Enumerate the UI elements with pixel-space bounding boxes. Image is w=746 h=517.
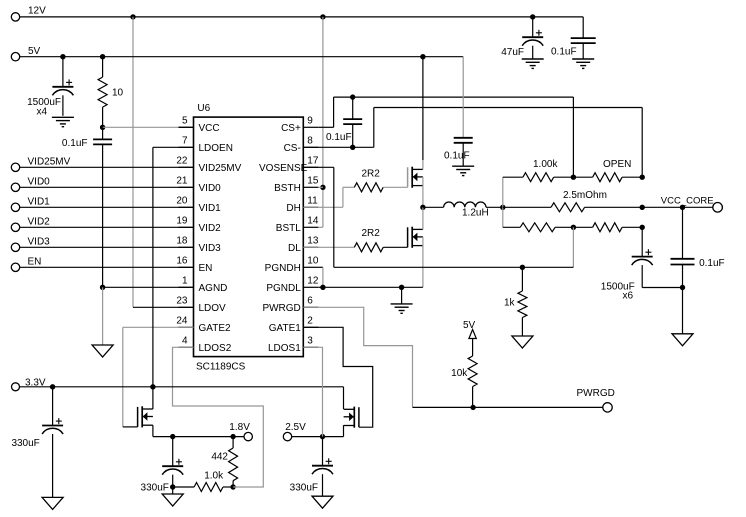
capacitor 330uF (1.8V) [141,437,184,494]
wire VID1 [20,206,194,208]
svg-text:VID25MV: VID25MV [28,157,71,168]
wire EN [20,266,194,268]
svg-text:19: 19 [176,215,188,226]
svg-text:LDOV: LDOV [199,303,227,314]
ground (arrow) 2.5V cap [312,496,333,508]
transistor Q-2.5V (NMOS mirrored) [344,407,359,428]
junction caps common [680,285,685,290]
wire PGNDL [318,286,423,288]
svg-text:11: 11 [307,195,318,206]
svg-text:CS-: CS- [284,143,301,154]
ground (earth) under 0.1uF mid [452,166,474,175]
wire 3.3V to Q2.5 drain [343,387,345,409]
transistor Q-high (NMOS) [408,167,423,188]
junction 3.3V/Q1.8 drain [150,384,155,389]
VID2 input terminal [11,217,50,232]
wire PWRGD line [413,406,603,408]
svg-text:LDOS1: LDOS1 [268,343,301,354]
junction VCC_CORE/0.1uF [680,205,685,210]
wire 3.3V to Q1.8 drain [152,387,154,409]
wire LDOS2 route [173,347,264,487]
transistor Q-1.8V (NMOS) [138,406,153,427]
junction BSTH [320,185,325,190]
junction 12V/LDOV [130,14,135,19]
ground (arrow) VCC_CORE caps [672,334,693,346]
junction R10/0.1uF/VCC [100,125,105,130]
svg-text:1: 1 [182,275,188,286]
resistor 10k [451,356,477,407]
resistor 1.0k [173,471,233,492]
svg-text:VID25MV: VID25MV [199,163,242,174]
ground (earth) under 0.1uF 12V [572,59,594,68]
wire BSTH stub link [318,187,323,227]
svg-text:8: 8 [307,135,313,146]
svg-text:PGNDL: PGNDL [266,283,301,294]
svg-text:OPEN: OPEN [603,159,631,170]
wire PGNDL ground lead [401,287,403,304]
svg-text:PGNDH: PGNDH [265,263,301,274]
junction LDOS1/2.5V [320,434,325,439]
3.3V input terminal [12,378,46,391]
wire sense row1 left [503,176,523,178]
12V input terminal [11,6,46,21]
capacitor 0.1uF (VCC) [62,127,112,287]
wire switch node to Q-low drain [422,207,424,229]
resistor OPEN [593,159,632,182]
5V input terminal [11,46,40,61]
svg-text:17: 17 [307,155,319,166]
svg-text:10k: 10k [451,368,468,379]
junction 12V/47uF [530,14,535,19]
capacitor 0.1uF (12V) [551,17,596,59]
svg-text:GATE1: GATE1 [269,323,301,334]
svg-text:PWRGD: PWRGD [577,388,615,399]
wire row2 left [503,206,551,208]
junction 12V/BSTH [320,14,325,19]
wire 12V to BSTH/BSTL (vertical) [322,17,324,227]
junction 442 top [230,434,235,439]
junction PGNDL/ground [399,285,404,290]
svg-text:2.5mOhm: 2.5mOhm [563,190,607,201]
ground (arrow) 3.3V cap [42,497,63,509]
svg-text:VCC_CORE: VCC_CORE [661,196,714,207]
svg-text:14: 14 [307,215,319,226]
svg-text:0.1uF: 0.1uF [551,47,577,58]
svg-text:PWRGD: PWRGD [262,303,300,314]
wire GATE2 route [123,327,194,427]
svg-text:2.5V: 2.5V [285,422,306,433]
wire PWRGD route [303,307,412,407]
capacitor 0.1uF (VCC_CORE) [671,207,725,333]
svg-text:5V: 5V [28,46,41,57]
wire CS- net [303,108,642,178]
resistor 1k [504,267,527,336]
wire VCC_CORE [642,206,713,208]
wire AGND to ground [102,287,104,345]
wire 5V to 0.1uF (mid) [462,57,464,138]
ground (earth) PGNDL [391,304,413,313]
svg-text:18: 18 [176,235,188,246]
svg-text:VOSENSE: VOSENSE [259,163,308,174]
wire Q-low source to PGNDL [422,237,424,287]
inductor 1.2uH [423,202,503,218]
wire Q1.8 source to 1.8V rail [153,425,244,436]
svg-text:1.2uH: 1.2uH [462,207,489,218]
svg-text:VID0: VID0 [199,183,222,194]
resistor 2R2 (high side) [354,169,383,192]
svg-text:0.1uF: 0.1uF [699,258,725,269]
svg-text:BSTH: BSTH [274,183,301,194]
wire CS+ net [318,97,573,177]
svg-text:24: 24 [176,315,188,326]
svg-text:15: 15 [307,175,319,186]
wire sense left vertical [502,177,504,227]
junction row1 mid [571,175,576,180]
capacitor 47uF [501,17,543,59]
ground (earth) under 47uF [522,59,544,68]
VID3 input terminal [11,237,50,252]
svg-text:EN: EN [28,257,42,268]
svg-text:442: 442 [211,452,228,463]
svg-text:VID1: VID1 [28,197,51,208]
node 5V pullup [463,320,476,356]
EN input terminal [11,257,41,272]
svg-text:5V: 5V [463,320,476,331]
wire row1 mid [554,176,593,178]
svg-text:x6: x6 [622,290,633,301]
wire VID2 [20,226,194,228]
VID0 input terminal [11,177,50,192]
wire VCC feed [103,126,194,128]
wire LDOV [133,306,194,308]
resistor 10 [98,57,123,128]
svg-text:13: 13 [307,235,319,246]
svg-text:BSTL: BSTL [276,223,301,234]
wire LDOEN to 3.3V [153,147,194,386]
wire 2R2 to Q-high gate [383,186,407,188]
resistor 442 [211,437,237,487]
svg-text:23: 23 [176,295,188,306]
wire Q2.5 source to 2.5V rail [292,425,344,436]
svg-text:21: 21 [176,175,188,186]
wire VID3 [20,246,194,248]
transistor Q-low (NMOS) [408,227,423,248]
svg-text:7: 7 [182,135,188,146]
junction 5V/1500uF [60,54,65,59]
junction CS-/0.1uF [350,145,355,150]
capacitor 0.1uF (CS filter) [326,97,362,147]
svg-text:5: 5 [182,115,188,126]
wire VID0 [20,186,194,188]
wire 3.3V rail [20,386,344,388]
junction 330uF 1.8V [170,434,175,439]
svg-text:9: 9 [307,115,313,126]
op-amp U6 SC1189CS controller IC [176,103,318,372]
wire 12V to LDOV (vertical) [132,17,134,307]
wire GATE1 route [303,327,372,427]
resistor 2R2 (low side) [354,228,383,252]
junction 5V/R10 [100,54,105,59]
capacitor 1500uF x4 [27,57,73,118]
junction AGND [100,285,105,290]
svg-text:2R2: 2R2 [362,169,381,180]
wire row3 left [503,226,520,228]
svg-text:10: 10 [112,87,124,98]
junction inductor/sense [500,205,505,210]
wire to ground 1.8V [172,487,174,494]
svg-text:16: 16 [176,255,188,266]
capacitor 330uF (2.5V) [290,437,333,497]
junction switch node [420,205,425,210]
svg-text:22: 22 [176,155,188,166]
VID1 input terminal [11,197,50,212]
svg-text:VID1: VID1 [199,203,222,214]
capacitor 1500uF x6 [601,227,683,301]
wire Q-high source to switch node [422,177,424,207]
svg-text:VID3: VID3 [199,243,222,254]
junction 3.3V/330uF [50,384,55,389]
junction PWRGD/10k [470,405,475,410]
svg-text:1.00k: 1.00k [533,159,558,170]
svg-text:LDOEN: LDOEN [199,143,233,154]
resistor row3-a [520,223,555,232]
junction row1 right [640,175,645,180]
svg-text:VCC: VCC [199,123,220,134]
svg-text:2R2: 2R2 [362,228,381,239]
svg-text:VID2: VID2 [28,217,51,228]
wire row3 mid [555,226,593,228]
ground (arrow) under 1k [512,336,533,348]
svg-text:DH: DH [286,203,300,214]
svg-text:12: 12 [307,275,319,286]
svg-text:1k: 1k [504,298,516,309]
svg-text:VID2: VID2 [199,223,222,234]
wire row3 to VOSENSE line [572,227,574,267]
junction 330uF/1.0k [170,484,175,489]
junction VOSENSE/1k [520,265,525,270]
wire row1 right [622,176,642,178]
wire LDOS1 route [303,347,322,436]
svg-text:VID3: VID3 [28,237,51,248]
svg-text:2: 2 [307,315,313,326]
wire DH to gate resistor [303,187,354,207]
svg-text:GATE2: GATE2 [199,323,231,334]
svg-text:330uF: 330uF [141,482,169,493]
svg-text:1.0k: 1.0k [204,471,224,482]
capacitor 330uF (3.3V) [11,387,63,498]
VID25MV input terminal [11,157,70,172]
ground (arrow) 1.8V [162,494,183,506]
resistor row3-b [593,223,623,232]
junction row3 right [640,225,645,230]
svg-text:VID0: VID0 [28,177,51,188]
wire row2 right [585,206,643,208]
wire VID25MV [20,166,194,168]
svg-text:3: 3 [307,335,313,346]
junction PGNDL [320,285,325,290]
wire row3 right [622,226,642,228]
svg-text:x4: x4 [36,107,47,118]
svg-text:U6: U6 [197,103,210,114]
wire 12V rail [20,16,584,18]
wire PGNDH jumper [318,267,323,287]
svg-text:DL: DL [288,243,301,254]
junction row3 mid [571,225,576,230]
wire DL to gate resistor [303,246,354,248]
ground (arrow) AGND [92,345,113,357]
1.8V output terminal [229,422,252,441]
wire 5V rail [20,56,464,58]
svg-text:0.1uF: 0.1uF [62,138,88,149]
wire AGND [103,286,194,288]
resistor 1.00k [523,159,559,182]
svg-text:12V: 12V [28,6,46,17]
svg-text:SC1189CS: SC1189CS [196,361,246,372]
junction CS+/0.1uF [350,94,355,99]
junction VCC_CORE/row2 [640,205,645,210]
wire 2R2 to Q-low gate [383,246,407,248]
capacitor 0.1uF (5V mid) [444,138,473,166]
2.5V output terminal [283,422,306,441]
wire VOSENSE [303,167,573,267]
VCC_CORE output terminal [661,196,723,213]
svg-text:330uF: 330uF [290,483,318,494]
svg-text:EN: EN [199,263,213,274]
svg-text:20: 20 [176,195,188,206]
svg-text:0.1uF: 0.1uF [444,150,470,161]
junction 1.0k/442/LDOS2 [230,484,235,489]
junction 5V/Q-high drain [420,54,425,59]
resistor 2.5mOhm [551,190,607,212]
wire 5V to Q-high drain [422,57,424,170]
ground (earth) under 1500uF x4 [52,117,74,126]
svg-text:LDOS2: LDOS2 [199,343,232,354]
svg-text:CS+: CS+ [281,123,301,134]
PWRGD output terminal [577,388,615,412]
svg-text:0.1uF: 0.1uF [326,132,352,143]
svg-text:330uF: 330uF [11,438,39,449]
svg-text:6: 6 [307,295,313,306]
svg-text:4: 4 [182,335,188,346]
svg-text:1.8V: 1.8V [229,422,250,433]
svg-text:10: 10 [307,255,319,266]
svg-text:47uF: 47uF [501,47,524,58]
svg-text:AGND: AGND [199,283,228,294]
